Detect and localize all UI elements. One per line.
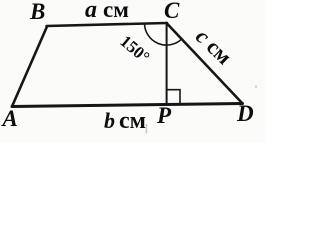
side CD (c cm) [167,23,243,104]
svg-text:см: см [103,0,129,22]
svg-text:P: P [156,103,172,128]
svg-text:a: a [85,0,97,23]
scan speck right edge [255,86,257,88]
angle arc 150 at C [145,24,182,46]
side AB [12,27,47,107]
svg-text:A: A [1,106,18,131]
right angle mark at P [167,90,180,105]
side AD (b cm) [12,104,243,107]
svg-text:см: см [119,108,146,134]
height CP [166,23,168,105]
svg-text:b: b [104,108,115,133]
svg-text:C: C [164,0,180,23]
side BC (a cm) [47,23,168,26]
svg-text:B: B [29,0,45,24]
svg-text:D: D [236,101,254,126]
scan speck left of P [146,124,148,134]
label c cm (rotated along CD) [191,24,237,70]
